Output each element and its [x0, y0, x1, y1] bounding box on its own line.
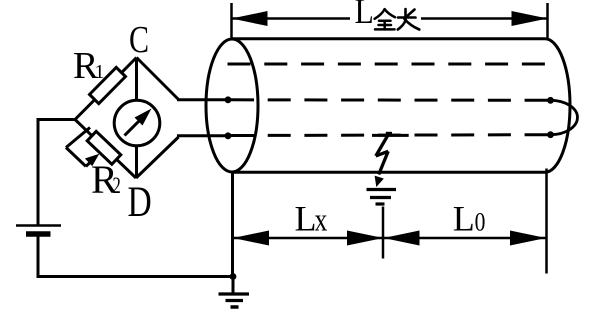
fault ground bar2: [370, 196, 391, 199]
dimension Lx left arrowhead: [233, 231, 269, 246]
svg-text:x: x: [315, 203, 328, 239]
cable conductor b (middle) dashed: [231, 98, 548, 102]
wire: bottom horizontal return: [37, 275, 234, 278]
wire: battery branch top horizontal to bridge left vertex: [37, 118, 77, 121]
galvanometer needle arrowhead: [135, 109, 152, 126]
dimension L line right part: [421, 17, 548, 20]
galvanometer needle shaft: [125, 119, 142, 136]
svg-text:1: 1: [95, 61, 105, 83]
R2 wiper arrow shaft: [86, 161, 92, 167]
ground G1 stub: [232, 277, 235, 295]
svg-text:C: C: [129, 19, 149, 61]
ground G1 bar1: [219, 292, 250, 295]
label 长 (CJK chang) drawn as strokes: [398, 9, 420, 30]
wire: galvanometer bottom lead to D: [135, 145, 138, 178]
cable conductor c (bottom, faulty) dashed: [231, 133, 548, 137]
R2 wiper arm line A: [66, 128, 90, 148]
resistor R2 body: [87, 131, 121, 164]
wire: bridge bottom-right corner to cable conductor c: [177, 134, 229, 137]
shorting loop at far end between conductors b and c: [551, 100, 578, 134]
ground G1 bar2: [226, 299, 244, 302]
svg-text:L: L: [355, 0, 374, 31]
bridge edge C to left vertex (carries R1): [75, 58, 137, 120]
svg-text:0: 0: [475, 209, 486, 237]
dimension Lx right arrowhead: [347, 231, 383, 246]
node: conductor c left terminal: [225, 132, 232, 139]
label 全 (CJK quan) drawn as strokes: [375, 9, 395, 29]
wire: battery vertical upper: [37, 118, 40, 226]
fault position extension line: [382, 207, 385, 259]
fault lightning top bump: [386, 132, 392, 136]
node: conductor c right terminal: [547, 131, 554, 138]
fault lightning segment 3: [379, 151, 389, 174]
node: conductor b left terminal: [225, 96, 232, 103]
svg-text:D: D: [128, 179, 152, 226]
wire: cable left end vertical down to return wire: [231, 171, 234, 277]
dimension L0 left arrowhead: [384, 231, 420, 246]
R2 wiper arrowhead: [85, 154, 99, 166]
resistor R1 body: [90, 67, 126, 103]
cable conductor a (top, spare) dashed: [228, 63, 546, 66]
bridge edge left vertex to D (carries R2): [75, 120, 136, 179]
conductor dash merged under fault: [372, 134, 409, 137]
dimension L0 right arrowhead: [510, 231, 546, 246]
battery B1 positive plate: [16, 224, 61, 227]
dimension L line left part: [232, 17, 351, 20]
R2 wiper arm line B: [66, 148, 86, 167]
fault lightning segment 2: [376, 151, 388, 156]
node: conductor b right terminal: [547, 97, 554, 104]
fault ground bar3: [376, 202, 385, 205]
dimension L left arrowhead: [232, 11, 268, 26]
dimension right extension line lower: [545, 169, 548, 274]
wire: battery vertical lower: [37, 236, 40, 278]
wire: galvanometer top lead from C: [135, 58, 138, 102]
cable sheath bottom line: [232, 171, 545, 174]
cable sheath top line: [232, 37, 545, 40]
svg-text:2: 2: [113, 173, 121, 198]
cable sheath left end ellipse: [206, 39, 258, 172]
fault ground bar1: [367, 188, 397, 191]
battery B1 negative plate: [26, 231, 51, 237]
dimension line Lx/L0 shaft: [233, 237, 546, 240]
svg-text:L: L: [453, 199, 475, 239]
dimension L extension line left: [230, 3, 233, 39]
fault lightning segment 1: [376, 135, 389, 157]
fault lightning arrowhead: [375, 176, 384, 187]
galvanometer U1 circle: [114, 100, 160, 146]
dimension L extension line right: [546, 3, 549, 40]
bridge edge C to top-right corner: [137, 58, 179, 100]
wire: bridge top-right corner to cable conductor b: [177, 98, 229, 101]
ground G1 bar3: [231, 305, 239, 309]
svg-text:L: L: [295, 199, 317, 239]
bridge edge D to bottom-right corner: [136, 137, 179, 178]
node junction at bottom: [230, 273, 237, 280]
cable sheath right end cap: [545, 39, 570, 173]
dimension L right arrowhead: [512, 11, 548, 26]
